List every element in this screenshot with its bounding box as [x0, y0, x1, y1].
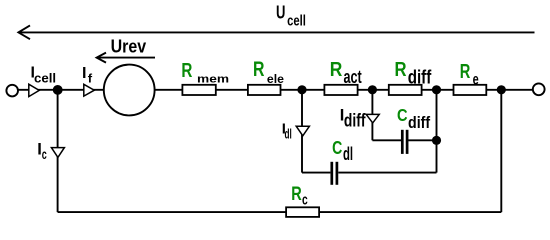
- svg-text:R: R: [460, 60, 471, 83]
- svg-text:cell: cell: [34, 71, 56, 86]
- resistor R_e: [454, 85, 487, 95]
- wire right vertical (node D to bottom rail): [500, 90, 502, 212]
- svg-text:dl: dl: [343, 143, 353, 164]
- svg-text:diff: diff: [408, 114, 431, 132]
- wire node C vertical: [436, 90, 438, 173]
- resistor R_mem: [182, 85, 215, 95]
- capacitor C_dl: [332, 162, 337, 185]
- svg-text:diff: diff: [408, 67, 432, 89]
- arrow I_diff (triangle): [366, 114, 379, 123]
- svg-text:R: R: [395, 58, 407, 81]
- wire Urev arrow: [97, 57, 155, 59]
- svg-text:act: act: [344, 67, 362, 87]
- capacitor C_diff: [402, 130, 407, 154]
- wire bottom rail: [58, 211, 502, 213]
- svg-text:diff: diff: [344, 110, 366, 131]
- source Urev (voltage source circle): [104, 65, 155, 116]
- resistor R_ele: [248, 85, 281, 95]
- svg-text:R: R: [291, 184, 302, 205]
- arrow I_dl (triangle): [296, 126, 309, 136]
- wire C_dl branch horizontal: [302, 172, 330, 174]
- svg-text:U: U: [276, 2, 285, 23]
- node D: [497, 85, 506, 94]
- terminal right: [533, 83, 545, 95]
- svg-text:Urev: Urev: [111, 35, 147, 56]
- terminal left: [6, 85, 18, 97]
- svg-text:ele: ele: [267, 72, 284, 86]
- wire U_cell measurement arrow (top): [19, 31, 535, 33]
- svg-text:e: e: [473, 72, 479, 89]
- svg-text:c: c: [302, 192, 308, 208]
- resistor R_diff: [389, 85, 422, 95]
- svg-text:c: c: [42, 147, 47, 162]
- svg-text:R: R: [253, 58, 264, 81]
- wire C_diff branch horizontal: [372, 139, 401, 141]
- resistor R_c: [286, 207, 319, 217]
- svg-text:cell: cell: [287, 14, 306, 30]
- svg-text:I: I: [82, 64, 86, 82]
- node junction (I_cell split): [53, 85, 63, 95]
- arrow I_cell (triangle): [29, 84, 39, 96]
- svg-text:dl: dl: [284, 127, 291, 142]
- node C_diff/C_dl junction: [432, 136, 441, 145]
- node B: [368, 85, 377, 94]
- svg-text:R: R: [330, 58, 343, 81]
- wire node A vertical (I_dl branch): [301, 90, 303, 173]
- svg-text:R: R: [181, 59, 192, 82]
- svg-text:mem: mem: [197, 74, 229, 86]
- node A: [297, 85, 306, 94]
- wire node B vertical (I_diff branch): [371, 90, 373, 141]
- resistor R_act: [324, 85, 357, 95]
- wire left vertical (cathode branch): [57, 90, 59, 212]
- wire main rail: [18, 89, 533, 91]
- svg-text:C: C: [332, 137, 342, 158]
- arrow I_c (triangle): [51, 148, 64, 158]
- svg-text:C: C: [397, 105, 408, 125]
- node C: [432, 85, 441, 94]
- arrow I_f (triangle): [84, 84, 95, 96]
